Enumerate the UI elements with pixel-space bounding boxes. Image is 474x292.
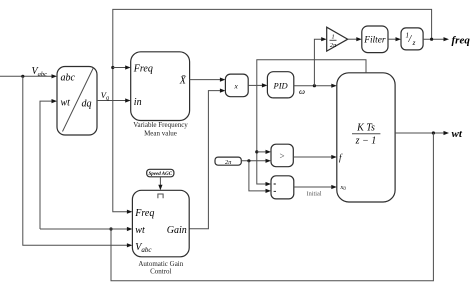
svg-text:wt: wt [61,98,71,109]
wire state to compare [257,150,271,154]
wire Freq into mean block [113,65,131,69]
wire wt line to AGC [40,227,132,231]
svg-text:2π: 2π [225,159,232,166]
block PID [267,72,293,98]
node wt junction [432,131,435,134]
node omega junction [313,84,316,87]
svg-text:x: x [234,81,239,90]
wire Vabc to AGC [23,76,133,247]
node 2pi junction [247,159,250,162]
wire omega up to gain triangle [314,37,326,86]
svg-text:Freq: Freq [133,64,153,75]
svg-text:dq: dq [82,99,92,110]
node state junction [255,150,258,153]
wire wt feedback [111,133,433,281]
block product x [225,74,248,97]
wire state port [257,60,366,186]
block AGC Automatic Gain Control [132,190,189,275]
svg-text:Control: Control [150,268,171,276]
block compare > [271,144,293,167]
svg-text:Gain: Gain [167,225,187,236]
wire freq feedback top [113,9,432,213]
wire sum to x0 [294,185,337,189]
block Speed AGC [147,169,174,177]
svg-text:Filter: Filter [363,36,386,46]
svg-text:1: 1 [331,34,334,41]
svg-text:z: z [412,38,416,47]
block Filter [362,26,388,53]
svg-text:in: in [134,97,142,108]
block U1 Variable Frequency Mean value [131,52,190,138]
wire 2pi to sum [249,161,271,193]
svg-text:Initial: Initial [307,190,322,197]
svg-text:z − 1: z − 1 [355,136,377,147]
wire Gain to product [189,89,225,229]
wire Vq [97,98,131,102]
wire wt into abc-dq [40,99,57,229]
block unit delay 1/z [401,28,423,50]
constant 2pi [215,157,241,166]
node freq junction [430,38,433,41]
svg-text:Variable Frequency: Variable Frequency [133,121,188,129]
wire triangle to Filter [348,37,362,41]
svg-text:PID: PID [273,80,289,90]
wire Xbar to product [190,78,226,82]
wire 2pi to compare [241,159,271,163]
wire omega to integrator [294,84,337,88]
svg-text:>: > [279,151,284,161]
node Vabc junction [21,75,24,78]
svg-text:ω: ω [299,86,305,96]
svg-text:wt: wt [135,225,145,236]
wire wt output [395,131,449,135]
svg-text:K Ts: K Ts [356,123,375,134]
gain triangle 1/2pi [327,27,348,51]
svg-text:Freq: Freq [134,208,154,219]
wire enable [158,177,162,191]
svg-text:X̄: X̄ [179,75,187,86]
block sum minus [271,176,294,199]
wire compare to f [293,155,337,159]
svg-text:Mean value: Mean value [144,129,177,137]
svg-text:abc: abc [61,73,76,84]
block integrator K Ts / z-1 [337,73,395,202]
svg-text:freq: freq [452,35,471,47]
svg-text:Speed AGC: Speed AGC [149,172,173,177]
wire freq output [423,37,449,41]
svg-text:wt: wt [452,128,463,140]
node freq-Freq junction [111,66,114,69]
svg-text:2π: 2π [330,42,337,49]
wire Vabc input [0,74,57,78]
wire product to PID [248,83,267,87]
node wt line junction [109,227,112,230]
transform block abc-dq [57,67,97,136]
wire Filter to 1/z [388,37,401,41]
